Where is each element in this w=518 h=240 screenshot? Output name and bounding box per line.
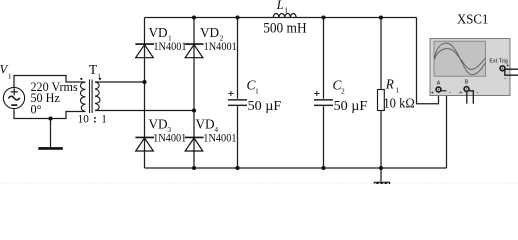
- oscilloscope XSC1 body: [430, 39, 510, 96]
- svg-text:A: A: [437, 81, 441, 87]
- AC source V1: [3, 87, 24, 108]
- svg-text:500 mH: 500 mH: [263, 20, 307, 36]
- wire capacitor C1 branch: [237, 18, 239, 169]
- capacitor C1: [228, 91, 247, 106]
- wire bottom rail: [145, 167, 447, 169]
- svg-text:1N4001: 1N4001: [153, 41, 186, 53]
- wire ext trig stub: [504, 69, 518, 75]
- svg-text:-: -: [504, 76, 506, 82]
- junction node top C2: [321, 15, 325, 19]
- scan artifact dotted rule at page bottom: [1, 182, 518, 184]
- wire channel B plus stub: [466, 92, 468, 104]
- junction node secondary top: [142, 80, 146, 84]
- oscilloscope XSC1 trace A: [434, 43, 485, 75]
- transformer T1 phase dot primary: [80, 78, 82, 80]
- diode VD1: [135, 44, 154, 58]
- wire resistor R1 branch: [380, 18, 382, 169]
- svg-text:VD: VD: [149, 25, 168, 40]
- svg-text:50 µF: 50 µF: [248, 99, 282, 114]
- ground at source: [38, 147, 63, 150]
- svg-text:Ext Trig: Ext Trig: [489, 58, 507, 64]
- oscilloscope channel B plus terminal: [464, 87, 469, 92]
- svg-text:0°: 0°: [31, 102, 42, 116]
- svg-text:-: -: [476, 90, 478, 96]
- svg-text:50 µF: 50 µF: [334, 99, 368, 114]
- wire top rail: [145, 17, 417, 19]
- svg-text:B: B: [465, 80, 469, 86]
- junction node bottom C2: [321, 166, 325, 170]
- inductor L1: [273, 13, 296, 17]
- svg-text:1: 1: [8, 72, 12, 81]
- svg-text:1N4001: 1N4001: [203, 133, 236, 145]
- wire source bottom to transformer primary: [14, 109, 86, 119]
- junction node source ground: [48, 116, 52, 120]
- wire channel A minus hook: [441, 90, 447, 92]
- oscilloscope ext trig terminal: [500, 66, 505, 71]
- svg-text:1: 1: [255, 87, 259, 96]
- oscilloscope XSC1 trace B: [434, 49, 485, 70]
- diode VD4: [185, 137, 204, 151]
- wire scope A- return drop: [441, 91, 447, 168]
- svg-text:L: L: [276, 0, 284, 12]
- wire ground stub at source: [50, 119, 52, 148]
- junction node top C1: [235, 15, 239, 19]
- wire channel B minus stub: [469, 91, 474, 104]
- svg-text:VD: VD: [200, 25, 219, 40]
- wire bridge left branch: [144, 18, 146, 169]
- junction node bottom C1: [235, 166, 239, 170]
- svg-text:1: 1: [396, 85, 400, 94]
- oscilloscope XSC1 screen: [434, 41, 486, 76]
- svg-text:-: -: [449, 91, 451, 97]
- svg-text:+: +: [506, 63, 509, 69]
- svg-text:XSC1: XSC1: [457, 13, 488, 28]
- wire top-rail drop to scope channel A: [417, 18, 439, 104]
- junction node top R1: [379, 15, 383, 19]
- svg-text:10: 10: [78, 114, 90, 126]
- svg-text:1N4001: 1N4001: [153, 133, 186, 145]
- wire bridge right branch: [193, 18, 195, 169]
- svg-text:1: 1: [284, 6, 288, 15]
- svg-text:10 kΩ: 10 kΩ: [383, 96, 414, 111]
- junction node secondary bottom: [192, 108, 196, 112]
- resistor R1: [378, 90, 385, 111]
- transformer T1 secondary coil: [95, 82, 100, 111]
- svg-text:R: R: [385, 77, 394, 92]
- transformer T1 core: [90, 80, 93, 114]
- wire transformer secondary bottom to bridge: [95, 110, 194, 112]
- junction node bottom R1: [379, 166, 383, 170]
- wire ground stub at bottom rail: [380, 168, 382, 182]
- wire capacitor C2 branch: [323, 18, 325, 169]
- svg-text:+: +: [431, 90, 434, 96]
- junction node bottom VD4: [192, 166, 196, 170]
- diode VD2: [185, 44, 204, 58]
- transformer T1 primary coil: [81, 82, 86, 112]
- wire transformer secondary top to bridge: [95, 81, 145, 83]
- svg-text::: :: [93, 114, 97, 126]
- svg-text:+: +: [459, 90, 462, 96]
- transformer T1 phase dot secondary: [99, 78, 101, 80]
- svg-text:2: 2: [341, 87, 345, 96]
- capacitor C2: [314, 91, 333, 106]
- svg-text:VD: VD: [149, 117, 168, 132]
- ground at bottom rail: [374, 182, 391, 185]
- svg-text:1N4001: 1N4001: [204, 41, 237, 53]
- svg-text:VD: VD: [196, 117, 215, 132]
- oscilloscope channel A plus terminal: [436, 87, 441, 92]
- diode VD3: [135, 137, 154, 151]
- junction node top VD2: [192, 15, 196, 19]
- wire source top to transformer primary: [14, 76, 86, 88]
- svg-text:1: 1: [97, 72, 101, 81]
- svg-text:1: 1: [101, 114, 107, 126]
